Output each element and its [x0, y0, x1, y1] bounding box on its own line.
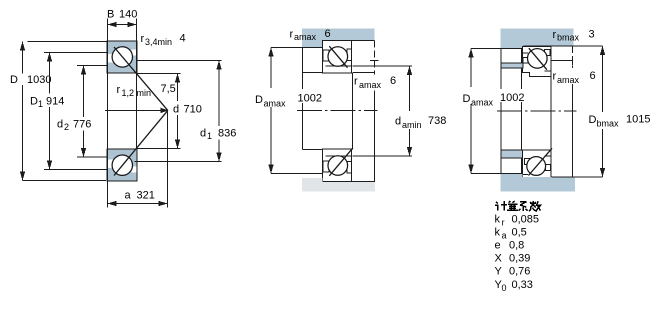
svg-text:amax: amax	[264, 99, 287, 109]
label r_bmax 3	[553, 29, 595, 43]
svg-text:836: 836	[218, 128, 236, 140]
label d1 836	[200, 128, 236, 142]
svg-text:d: d	[395, 116, 401, 128]
bearing outer/inner ring section top (filled)	[107, 41, 137, 73]
row X 0,39	[495, 253, 531, 265]
ball top	[112, 47, 132, 67]
r_a fillet leader (right diagram)	[552, 46, 573, 177]
svg-text:r: r	[553, 71, 557, 83]
svg-text:D: D	[463, 93, 471, 105]
svg-text:r: r	[354, 76, 358, 88]
dimension B	[108, 22, 137, 27]
dimension d1 836	[135, 61, 222, 162]
bearing ring section bottom (filled)	[107, 149, 137, 181]
svg-text:140: 140	[119, 9, 137, 21]
dimension d 710	[137, 74, 181, 149]
svg-text:1015: 1015	[626, 114, 650, 126]
svg-text:1,2 min: 1,2 min	[122, 88, 152, 98]
svg-text:B: B	[107, 9, 114, 21]
row Y_0 0,33	[495, 279, 533, 293]
svg-text:776: 776	[73, 119, 91, 131]
svg-text:914: 914	[46, 96, 64, 108]
label D1 914	[30, 96, 64, 110]
svg-text:1: 1	[38, 99, 43, 109]
bearing section outline top	[323, 41, 352, 73]
svg-text:1030: 1030	[27, 74, 51, 86]
svg-text:D: D	[589, 114, 597, 126]
svg-text:amax: amax	[557, 75, 580, 85]
bearing section outline bottom	[323, 149, 352, 181]
svg-text:a: a	[125, 190, 132, 202]
dimension D_amax 1002	[268, 48, 273, 174]
svg-text:6: 6	[590, 70, 596, 82]
label d_amin 738	[395, 115, 446, 130]
label D_amax 1002 (right)	[463, 92, 525, 108]
ball right bottom	[527, 148, 552, 175]
dimension D1 914	[44, 53, 107, 170]
svg-text:1: 1	[207, 131, 212, 141]
contact angle line top	[114, 47, 168, 110]
label r_amax 6 (top)	[290, 28, 331, 42]
dimension a 321	[108, 110, 168, 207]
bearing right face line (right diagram)	[550, 77, 552, 150]
spacer outline verticals	[501, 49, 522, 174]
svg-text:D: D	[255, 94, 263, 106]
housing bore edge lines	[303, 48, 323, 150]
svg-text:d: d	[200, 128, 206, 140]
svg-text:D: D	[10, 74, 18, 86]
svg-text:r: r	[117, 84, 121, 96]
dimension d2 776	[77, 66, 107, 158]
svg-text:1002: 1002	[500, 92, 524, 104]
housing band top (blue)	[271, 29, 375, 48]
band bottom right (blue)	[471, 173, 575, 191]
svg-text:amax: amax	[294, 32, 317, 42]
row k_r 0,085	[495, 214, 540, 228]
svg-text:X: X	[495, 253, 503, 265]
label r_amax 6 (right)	[553, 70, 596, 85]
svg-text:bmax: bmax	[557, 33, 580, 43]
svg-text:0,085: 0,085	[512, 214, 540, 226]
ball middle bottom	[328, 148, 353, 176]
svg-text:0,33: 0,33	[512, 279, 533, 291]
svg-text:k: k	[495, 227, 501, 239]
svg-text:0,39: 0,39	[509, 253, 530, 265]
dimension D_amax (right)	[468, 49, 473, 174]
svg-text:bmax: bmax	[597, 119, 620, 129]
label r_amax 6 (middle)	[354, 75, 396, 90]
svg-text:d: d	[173, 104, 179, 116]
dimension d_amin 738	[353, 66, 413, 156]
row Y 0,76	[495, 266, 531, 278]
svg-text:r: r	[553, 29, 557, 41]
svg-text:amax: amax	[471, 98, 494, 108]
band top right (blue)	[471, 29, 574, 49]
axis line right diagram	[497, 110, 577, 112]
label r3,4min 4	[141, 33, 186, 48]
svg-text:0: 0	[502, 283, 507, 293]
svg-text:k: k	[495, 214, 501, 226]
row e 0,8	[495, 240, 525, 252]
bearing right face line (middle)	[353, 73, 375, 150]
bearing section outline right top	[523, 47, 551, 77]
svg-text:321: 321	[137, 190, 155, 202]
svg-text:Y: Y	[495, 266, 503, 278]
label D_amax 1002	[255, 93, 322, 109]
svg-text:r: r	[502, 218, 505, 228]
svg-text:amax: amax	[359, 80, 382, 90]
svg-text:6: 6	[390, 75, 396, 87]
bearing section outline right bottom	[523, 150, 551, 180]
svg-text:D: D	[30, 96, 38, 108]
ball middle top	[328, 46, 348, 67]
svg-text:a: a	[502, 231, 507, 241]
svg-text:1002: 1002	[298, 93, 322, 105]
shaft abutment land top (blue bar)	[501, 63, 523, 68]
dimension D 1030	[20, 42, 107, 181]
dimension D_bmax 1015	[574, 46, 606, 177]
svg-text:7,5: 7,5	[161, 83, 176, 95]
label r1,2 min 7,5	[117, 83, 176, 98]
axis line left diagram	[105, 108, 169, 113]
bearing face edge lines	[108, 19, 137, 208]
header 计算系数 (drawn strokes)	[495, 201, 541, 211]
svg-text:738: 738	[428, 115, 446, 127]
axis line middle diagram	[297, 110, 378, 112]
svg-text:e: e	[495, 240, 501, 252]
svg-text:710: 710	[184, 104, 202, 116]
shaft abutment land bottom (blue bar)	[501, 150, 523, 158]
row k_a 0,5	[495, 227, 527, 241]
svg-text:2: 2	[64, 122, 69, 132]
housing band bottom (gray)	[271, 174, 375, 192]
svg-text:0,5: 0,5	[512, 227, 527, 239]
svg-text:4: 4	[180, 33, 186, 45]
svg-text:amin: amin	[402, 120, 422, 130]
svg-text:6: 6	[325, 28, 331, 40]
svg-text:d: d	[57, 119, 63, 131]
svg-text:3,4min: 3,4min	[145, 37, 172, 47]
svg-text:0,8: 0,8	[509, 240, 524, 252]
svg-text:r: r	[290, 29, 294, 41]
svg-text:3: 3	[589, 29, 595, 41]
label d2 776	[57, 119, 91, 133]
ball right top	[528, 48, 548, 69]
contact angle line bottom	[114, 110, 168, 175]
svg-text:0,76: 0,76	[509, 266, 530, 278]
ball bottom	[112, 155, 132, 175]
r_a fillet leader line (vertical)	[370, 41, 379, 182]
label D_bmax 1015	[589, 114, 651, 129]
svg-text:r: r	[141, 33, 145, 45]
